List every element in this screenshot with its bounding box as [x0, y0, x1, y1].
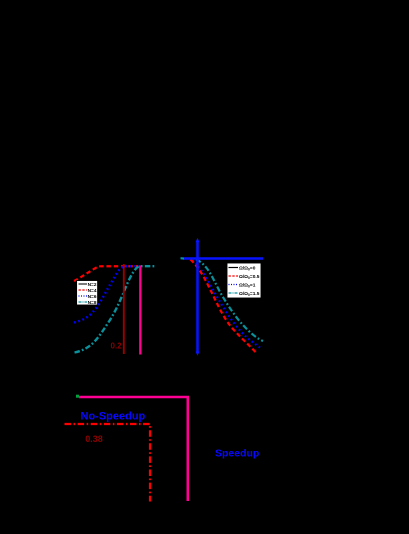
- legend row omega=0.5 red dashed: [229, 275, 239, 277]
- red dashed decay curve: [191, 260, 257, 354]
- svg-text:N=6: N=6: [88, 294, 97, 300]
- svg-text:0.38: 0.38: [85, 434, 103, 444]
- dark red vertical marker line: [123, 264, 125, 354]
- svg-text:N=2: N=2: [88, 282, 97, 288]
- legend row omega=1 blue dotted: [229, 284, 239, 286]
- legend row omega=0 black solid: [229, 267, 239, 269]
- legend row N=8 teal dash-dot: [79, 301, 88, 303]
- curve N=8 teal dash-dot rising to plateau: [75, 266, 156, 352]
- bottom arrowhead: [196, 352, 200, 356]
- teal dash-dot decay curve: [181, 258, 264, 341]
- svg-text:Ω/Ω0=0: Ω/Ω0=0: [239, 266, 256, 272]
- svg-text:Ω/Ω0=1: Ω/Ω0=1: [239, 283, 256, 289]
- curve N=6 blue dotted rising to plateau: [74, 266, 140, 322]
- left legend box: [77, 281, 98, 306]
- magenta vertical marker line: [139, 266, 141, 355]
- svg-text:Speedup: Speedup: [215, 448, 259, 460]
- legend row N=6 blue dotted: [79, 295, 88, 297]
- blue horizontal crosshair line: [184, 257, 263, 259]
- blue dotted decay curve: [193, 260, 261, 348]
- legend row N=2 black solid: [79, 283, 88, 285]
- legend row N=4 red dashed: [79, 289, 88, 291]
- top arrowhead: [196, 238, 200, 243]
- green start dot: [76, 395, 79, 398]
- magenta step line: [79, 397, 188, 501]
- legend row omega=1.5 teal dash-dot: [229, 292, 239, 294]
- svg-text:No-Speedup: No-Speedup: [81, 411, 146, 423]
- right legend box: [227, 263, 261, 298]
- red dash-dot step line: [65, 424, 151, 502]
- svg-text:Ω/Ω0=0.5: Ω/Ω0=0.5: [239, 274, 260, 280]
- svg-text:0.2: 0.2: [111, 342, 123, 351]
- svg-text:N=8: N=8: [88, 300, 97, 306]
- curve N=4 red dashed rising to plateau: [74, 266, 138, 281]
- svg-text:N=4: N=4: [88, 288, 97, 294]
- svg-text:Ω/Ω0=1.5: Ω/Ω0=1.5: [239, 291, 260, 297]
- blue vertical crosshair line with arrowheads: [196, 241, 199, 353]
